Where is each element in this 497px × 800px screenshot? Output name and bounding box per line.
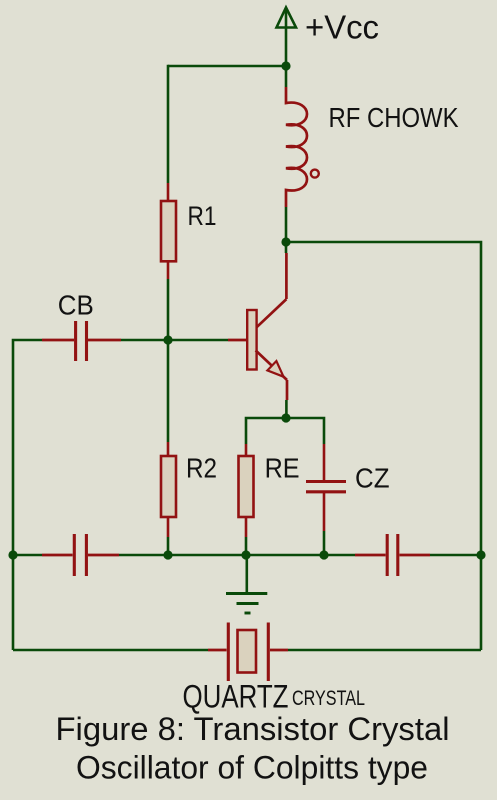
- svg-text:R1: R1: [188, 201, 217, 231]
- wire: collector node down: [285, 242, 288, 253]
- inductor L1 RF CHOWK: [286, 87, 319, 207]
- node: bottom left junction: [8, 550, 17, 559]
- wire: left branch vertical down to R1: [167, 65, 170, 183]
- resistor RE: [239, 444, 254, 555]
- ground: [226, 555, 267, 613]
- svg-text:CRYSTAL: CRYSTAL: [292, 687, 365, 710]
- wire: CB left corner and left rail: [13, 340, 42, 650]
- svg-text:Oscillator of Colpitts type: Oscillator of Colpitts type: [76, 750, 428, 786]
- capacitor C2 (bottom right): [355, 534, 430, 576]
- wire: collector node to right rail: [286, 242, 481, 650]
- node: ground junction: [241, 550, 250, 559]
- wire: emitter rail to RE and CZ: [246, 418, 324, 444]
- node: emitter junction: [281, 413, 290, 422]
- power symbol +Vcc: [277, 8, 297, 67]
- capacitor CB: [42, 321, 121, 361]
- svg-text:R2: R2: [186, 453, 217, 484]
- svg-text:+Vcc: +Vcc: [305, 9, 379, 46]
- svg-text:CB: CB: [58, 290, 94, 321]
- capacitor C1 (bottom left): [42, 534, 119, 576]
- node: collector junction: [281, 237, 290, 246]
- wire: bottom rail middle: [119, 554, 355, 557]
- wire: crystal right pin to right rail: [288, 649, 481, 652]
- svg-text:QUARTZ: QUARTZ: [183, 679, 289, 715]
- svg-text:Figure 8: Transistor Crystal: Figure 8: Transistor Crystal: [56, 711, 450, 747]
- capacitor CZ: [306, 444, 346, 555]
- wire: top horizontal from R1 branch to Vcc node: [168, 65, 286, 68]
- node: base junction: [163, 335, 172, 344]
- node: bottom right junction: [476, 550, 485, 559]
- node: CZ bottom junction: [319, 550, 328, 559]
- wire: Vcc node down to inductor: [285, 66, 288, 87]
- wire: bottom rail right segment: [430, 554, 481, 557]
- svg-text:RE: RE: [265, 453, 300, 484]
- resistor R2: [161, 340, 176, 555]
- crystal X1: [208, 623, 288, 682]
- transistor Q1: [228, 253, 287, 400]
- wire: base from CB to junction and transistor: [121, 339, 228, 342]
- node: R2 bottom junction: [163, 550, 172, 559]
- wire: bottom rail left segment: [13, 554, 42, 557]
- resistor R1: [161, 183, 176, 279]
- wire: left rail bottom to crystal: [13, 649, 208, 652]
- svg-text:CZ: CZ: [355, 462, 390, 493]
- svg-text:RF CHOWK: RF CHOWK: [329, 102, 459, 133]
- node: Vcc junction: [281, 61, 290, 70]
- wire: inductor bottom to collector node: [285, 207, 288, 242]
- wire: R1 bottom to base junction: [167, 279, 170, 340]
- wire: emitter down to emitter node: [285, 400, 288, 418]
